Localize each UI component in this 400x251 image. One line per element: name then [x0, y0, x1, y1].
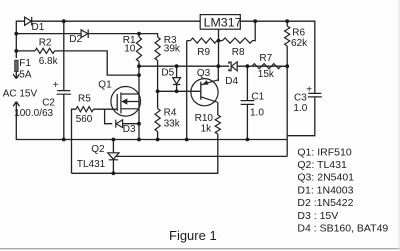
svg-text:6.8k: 6.8k [39, 56, 59, 67]
capacitor C2 [53, 21, 71, 139]
svg-text:+: + [306, 85, 312, 96]
svg-text:5A: 5A [19, 70, 32, 81]
resistor R9 [187, 40, 219, 42]
wire LM317 adj stub [218, 29, 220, 40]
transistor Q3 2N5401 [191, 79, 218, 106]
svg-text:D1: 1N4003: D1: 1N4003 [297, 185, 353, 197]
svg-text:AC 15V: AC 15V [3, 88, 38, 99]
right border line [398, 0, 400, 251]
svg-text:Q2: Q2 [91, 144, 105, 155]
wire TL431 ref line [117, 155, 288, 157]
svg-text:D1: D1 [32, 22, 45, 33]
wire mid row y66.2 [139, 65, 287, 67]
bottom border line [0, 248, 400, 250]
shunt Q2 TL431 [108, 140, 119, 174]
wire Q3 base row y91.3 [158, 90, 201, 92]
LM317 U1 box [200, 15, 240, 30]
svg-text:Q3: Q3 [197, 68, 211, 79]
diode D2 [81, 29, 88, 38]
wire LM317 output to C3 top corner [240, 21, 314, 93]
svg-text:D2: D2 [69, 34, 82, 45]
svg-text:+: + [53, 80, 59, 91]
svg-text:R6: R6 [292, 28, 305, 39]
resistor R6 [285, 26, 290, 46]
svg-text:R7: R7 [259, 53, 272, 64]
svg-text:R8: R8 [232, 47, 245, 58]
svg-text:Q2: TL431: Q2: TL431 [297, 159, 347, 171]
svg-text:D2 :1N5422: D2 :1N5422 [297, 197, 353, 209]
svg-text:Q1: Q1 [98, 79, 112, 90]
svg-text:D4: D4 [225, 76, 238, 87]
svg-text:1.0: 1.0 [250, 108, 264, 119]
wire top rail y21 from left corner to LM317 input [16, 21, 200, 58]
wire Q1 drain column [138, 34, 140, 140]
zener D3 [105, 109, 139, 128]
svg-text:F1: F1 [19, 58, 31, 69]
diode D5 [173, 66, 181, 91]
capacitor C3 [306, 85, 322, 97]
svg-text:1k: 1k [201, 123, 213, 134]
svg-text:R2: R2 [39, 38, 52, 49]
svg-text:R4: R4 [164, 107, 177, 118]
resistor R1 [136, 37, 141, 62]
wire output column to ref corner [286, 66, 288, 156]
diode D4 schottky [229, 62, 237, 71]
svg-text:39k: 39k [164, 43, 181, 54]
svg-text:10: 10 [124, 43, 136, 54]
svg-text:D5: D5 [161, 68, 174, 79]
svg-text:Figure 1: Figure 1 [169, 228, 217, 243]
AC lower terminal arrow and wire to ground rail [13, 102, 287, 140]
wire R9 left to ground rail [186, 41, 188, 140]
resistor R2 with wire to Q1 drain node [16, 50, 35, 52]
svg-text:62k: 62k [291, 38, 308, 49]
svg-text:R10: R10 [195, 113, 214, 124]
fuse F1 [15, 60, 18, 71]
svg-text:Q3: 2N5401: Q3: 2N5401 [297, 172, 354, 184]
svg-text:R5: R5 [78, 93, 91, 104]
resistor R4 [155, 109, 160, 132]
svg-text:D3 : 15V: D3 : 15V [297, 210, 338, 222]
wire adj column to mid row [217, 41, 219, 82]
resistor R3 [155, 37, 160, 61]
parts list text [297, 146, 388, 234]
resistor R5 [72, 109, 105, 173]
resistor R8 [219, 21, 256, 40]
svg-text:33k: 33k [164, 119, 181, 130]
svg-text:D4 : SB160, BAT49: D4 : SB160, BAT49 [297, 223, 388, 235]
svg-text:560: 560 [76, 114, 93, 125]
resistor R10 [217, 102, 219, 115]
svg-text:Q1: IRF510: Q1: IRF510 [297, 146, 351, 158]
capacitor C1 [241, 66, 255, 139]
wire fuse to AC terminal arrow [13, 72, 19, 79]
diode D1 [25, 17, 32, 26]
resistor R7 [252, 64, 281, 69]
svg-text:1.0: 1.0 [293, 103, 307, 114]
svg-text:TL431: TL431 [77, 159, 106, 170]
wire R3 bottom to base node [157, 61, 159, 109]
wire jog to C3 bottom [287, 97, 315, 136]
svg-text:15k: 15k [258, 69, 275, 80]
wire D2 row y33.6 [16, 34, 157, 37]
svg-text:D3: D3 [123, 124, 136, 135]
wire R4 bottom lead [157, 132, 159, 140]
svg-text:LM317: LM317 [204, 15, 242, 29]
svg-text:C1: C1 [251, 92, 264, 103]
svg-text:C2: C2 [42, 98, 55, 109]
svg-text:R9: R9 [197, 47, 210, 58]
transistor Q1 IRF510 mosfet [105, 87, 141, 117]
svg-text:100.0/63: 100.0/63 [14, 108, 53, 119]
